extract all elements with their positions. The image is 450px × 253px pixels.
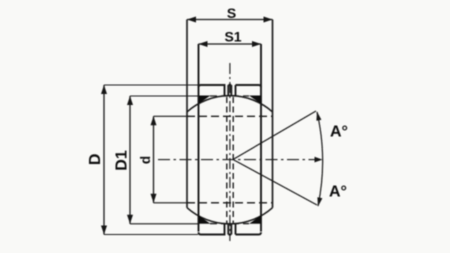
hidden lubrication hole right line	[232, 97, 234, 223]
inner ring right face	[272, 20, 274, 208]
svg-text:D: D	[87, 154, 104, 166]
svg-text:A°: A°	[330, 124, 348, 141]
hidden bore line top	[187, 115, 273, 117]
seal wedge bottom left	[199, 216, 211, 224]
svg-text:S1: S1	[224, 29, 241, 45]
hidden seal diameter line top	[210, 95, 249, 97]
dimension D1 line	[127, 96, 199, 224]
svg-text:d: d	[138, 156, 153, 164]
vertical center axis	[229, 63, 231, 241]
horizontal center axis	[158, 159, 318, 161]
dimension S line	[187, 17, 273, 23]
angle arc upper arrowhead	[316, 112, 321, 121]
seal wedge bottom right	[249, 216, 261, 224]
lubrication groove line top	[225, 95, 236, 97]
misalignment angle upper line	[233, 111, 316, 160]
svg-text:A°: A°	[329, 184, 347, 201]
hidden lubrication hole left line	[226, 97, 228, 223]
svg-text:S: S	[227, 5, 236, 21]
dimension D line	[101, 85, 198, 235]
hidden bore line bottom	[187, 202, 273, 204]
svg-text:D1: D1	[114, 150, 131, 171]
outer ring right face	[260, 44, 262, 232]
sphere outline top arc	[187, 96, 273, 112]
hidden seal diameter line bottom	[210, 223, 249, 225]
center axis arrow at arc	[315, 157, 323, 163]
seal wedge top left	[199, 96, 211, 104]
misalignment angle lower line	[233, 160, 317, 206]
lubrication groove line bottom	[225, 223, 236, 225]
dimension S1 line	[199, 41, 262, 47]
outer ring top edge	[199, 85, 262, 96]
dimension d line	[151, 116, 191, 203]
sphere outline bottom arc	[187, 208, 273, 224]
outer ring bottom edge	[199, 224, 262, 235]
angle arc lower arrowhead	[317, 197, 322, 206]
seal wedge top right	[249, 96, 261, 104]
angle arc	[317, 112, 323, 206]
inner ring left face	[186, 20, 188, 208]
outer ring left face	[198, 44, 200, 232]
